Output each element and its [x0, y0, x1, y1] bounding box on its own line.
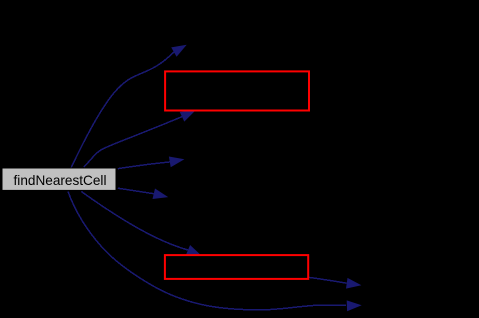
edge findNearestCell -> red box 1 [84, 111, 195, 168]
edge red box 2 -> callee7 [309, 277, 361, 288]
edge findNearestCell -> callee1 (top) [71, 45, 187, 168]
node red box 1 (callee, red border) [165, 71, 309, 110]
edge findNearestCell -> callee3 [118, 157, 185, 169]
node red box 2 (callee, red border) [165, 255, 308, 279]
edge findNearestCell -> callee6 (bottom long) [68, 192, 362, 312]
svg-text:findNearestCell: findNearestCell [14, 173, 107, 188]
node findNearestCell (current function, grey) [2, 168, 116, 190]
edge findNearestCell -> callee4 [118, 188, 168, 199]
edge findNearestCell -> red box 2 [81, 192, 201, 256]
